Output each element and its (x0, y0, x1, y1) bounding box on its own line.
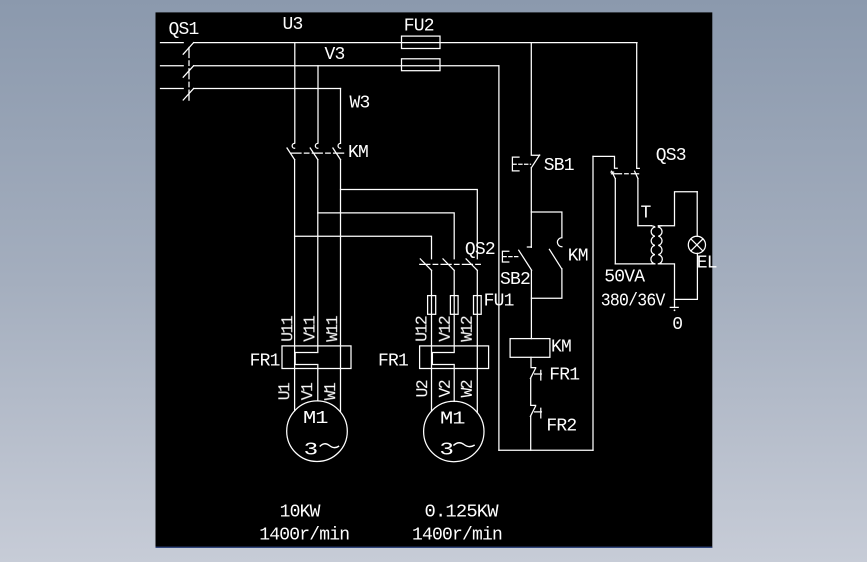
contactor KM main contact 1 (292, 143, 294, 148)
svg-text:0: 0 (672, 315, 682, 335)
wire U3 drop (294, 43, 296, 143)
wire QS3 left pole down (614, 179, 616, 264)
svg-text:380/36V: 380/36V (601, 292, 666, 312)
svg-text:KM: KM (348, 143, 368, 163)
svg-text:W3: W3 (350, 94, 370, 114)
svg-text:FR1: FR1 (549, 366, 579, 386)
wire return riser (592, 156, 594, 450)
transformer T secondary bottom lead (658, 264, 674, 300)
button SB2 contact tick (527, 246, 531, 248)
coil KM (510, 339, 550, 358)
svg-text:10KW: 10KW (280, 502, 321, 522)
wire branch U to QS2 (295, 236, 432, 258)
wire W12 to FR1 (476, 346, 478, 413)
transformer T primary bottom (615, 263, 655, 265)
svg-text:V11: V11 (301, 315, 320, 342)
svg-text:U11: U11 (278, 315, 297, 342)
motor M1 left tilde (320, 444, 339, 448)
svg-text:QS2: QS2 (465, 240, 495, 260)
button SB2 actuator (502, 251, 508, 262)
svg-text:3: 3 (439, 440, 453, 460)
svg-text:FR1: FR1 (250, 352, 280, 372)
wire control feed from L2 (498, 66, 500, 450)
switch QS3 right blade (635, 171, 638, 178)
contactor KM main linkage (291, 152, 346, 154)
wire L3 phase line (194, 88, 341, 90)
fuse FU2 element 2 (402, 59, 441, 71)
svg-text:QS1: QS1 (169, 20, 199, 40)
switch QS3 bracket (593, 156, 617, 168)
wire L1 phase line (194, 42, 637, 44)
wire L2 phase line (194, 65, 499, 67)
svg-text:FU2: FU2 (404, 17, 434, 37)
wire W phase to FR1 (340, 160, 342, 412)
svg-text:U3: U3 (283, 15, 303, 35)
svg-text:50VA: 50VA (604, 268, 645, 288)
wire V3 drop (317, 66, 319, 143)
contactor KM main contact 3 (338, 143, 340, 148)
switch QS1 linkage (188, 48, 190, 101)
svg-text:M1: M1 (440, 410, 465, 430)
wire KM aux branch bottom (531, 269, 562, 298)
button SB1 actuator (512, 157, 519, 171)
svg-text:W2: W2 (458, 380, 477, 397)
wire L2 phase stub (161, 65, 184, 67)
switch QS3 right pole (637, 43, 640, 169)
svg-text:FR1: FR1 (378, 352, 408, 372)
drawing canvas (156, 12, 713, 547)
wire U phase to FR1 (294, 160, 296, 411)
svg-text:1400r/min: 1400r/min (259, 526, 349, 546)
svg-text:V3: V3 (325, 45, 345, 65)
svg-text:T: T (641, 204, 652, 224)
thermal contact FR1 (530, 368, 535, 378)
switch QS2 blade 1 (420, 259, 431, 271)
motor M1 right circle (424, 401, 484, 461)
switch QS3 left blade (611, 171, 615, 178)
transformer T secondary winding (658, 226, 662, 264)
svg-text:SB2: SB2 (500, 270, 530, 290)
wire V12 to FR1 (453, 365, 455, 402)
button SB1 blade (531, 155, 539, 168)
wire control bottom rail (499, 449, 593, 451)
switch QS3 linkage (612, 173, 639, 175)
transformer T secondary top lead (658, 192, 697, 226)
wire QS2 pole3 to fuse (476, 270, 478, 346)
svg-text:FR2: FR2 (546, 417, 576, 437)
svg-text:V12: V12 (436, 316, 455, 342)
svg-text:QS3: QS3 (656, 146, 686, 166)
wire KM aux branch top (531, 212, 562, 237)
svg-text:U1: U1 (275, 382, 294, 400)
lamp EL (688, 236, 705, 253)
wire SB1 feed drop (531, 43, 539, 156)
fuse FU1 element 2 (450, 296, 458, 315)
wire lamp return (675, 253, 698, 299)
wire L1 phase stub (161, 42, 184, 44)
svg-text:V1: V1 (298, 382, 317, 400)
wire L3 phase stub (161, 88, 184, 90)
switch QS1 blade 2 (183, 66, 193, 77)
svg-text:1400r/min: 1400r/min (412, 526, 502, 546)
svg-text:EL: EL (697, 254, 717, 274)
transformer T primary lead (638, 225, 652, 227)
svg-text:U2: U2 (413, 380, 432, 397)
overload relay FR1 heater box (motor 1) (282, 346, 351, 369)
fuse FU2 element 1 (402, 36, 441, 48)
switch QS2 blade 2 (443, 259, 454, 271)
wire coil to FR1 contact (531, 357, 536, 367)
wire SB2 to KM coil (530, 270, 532, 338)
svg-text:KM: KM (551, 338, 571, 358)
svg-text:SB1: SB1 (544, 156, 574, 176)
switch QS1 blade 1 (183, 43, 193, 55)
contactor KM main contact 2 (315, 143, 317, 148)
switch QS2 linkage (420, 263, 481, 265)
switch QS1 blade 3 (183, 89, 193, 101)
wire SB1 to SB2 (530, 168, 532, 248)
motor M1 left circle (287, 401, 348, 462)
svg-text:KM: KM (568, 247, 588, 267)
wire branch V to QS2 (318, 213, 454, 259)
wire W3 drop (340, 89, 342, 143)
svg-text:W11: W11 (323, 315, 342, 342)
button SB2 blade (519, 250, 532, 270)
fuse FU1 element 3 (474, 296, 482, 315)
wire lamp top lead (696, 192, 698, 237)
wire FR1 to FR2 (531, 379, 536, 406)
fuse FU1 element 1 (428, 296, 436, 315)
svg-text:W1: W1 (321, 382, 340, 400)
svg-text:M1: M1 (303, 409, 328, 429)
transformer T primary winding (651, 226, 655, 264)
contactor KM aux contact (557, 238, 562, 247)
wire QS2 pole1 to fuse (431, 270, 433, 346)
wire QS2 pole2 to fuse (453, 270, 455, 352)
svg-text:3: 3 (304, 440, 318, 460)
svg-text:W12: W12 (458, 316, 477, 342)
wire V phase to FR1 (317, 160, 319, 401)
svg-text:U12: U12 (413, 316, 432, 342)
switch QS2 blade 3 (466, 259, 477, 271)
overload relay FR1 heater box (motor 2) (420, 346, 489, 369)
motor M1 right tilde (453, 443, 474, 447)
wire branch W to QS2 (341, 190, 478, 259)
node 0 ground stub (670, 299, 678, 307)
svg-text:V2: V2 (436, 380, 455, 397)
thermal contact FR2 (530, 406, 535, 416)
svg-text:0.125KW: 0.125KW (425, 502, 499, 522)
wire QS3 right pole down (637, 179, 639, 226)
wire U12 to FR1 (431, 346, 433, 411)
wire FR2 to bottom rail (530, 416, 532, 450)
svg-text:FU1: FU1 (484, 292, 514, 312)
